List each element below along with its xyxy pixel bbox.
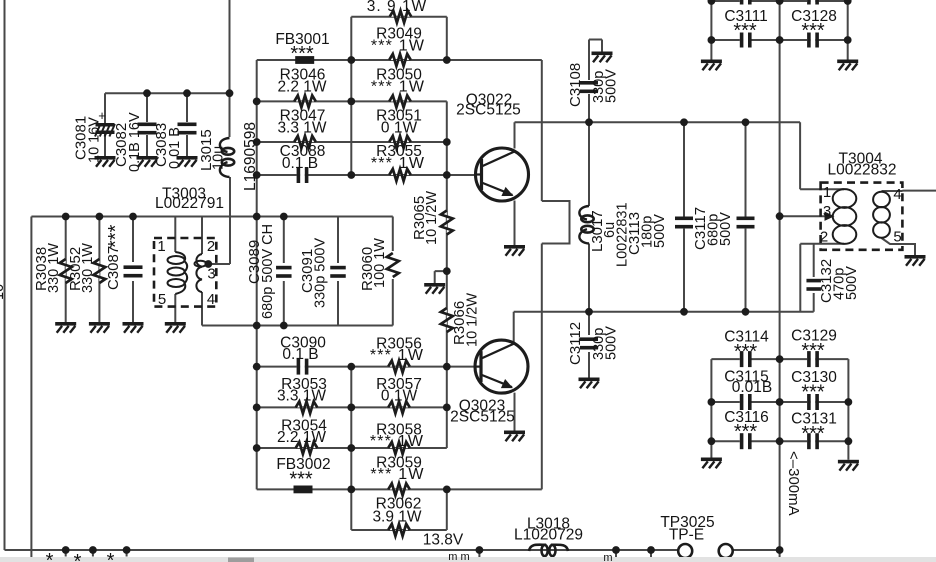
svg-text:2SC5125: 2SC5125 — [456, 102, 521, 119]
svg-text:m m: m m — [448, 551, 469, 562]
svg-text:3. 9 1W: 3. 9 1W — [367, 0, 427, 15]
svg-text:2SC5125: 2SC5125 — [450, 409, 515, 426]
svg-text:330 1W: 330 1W — [46, 243, 62, 293]
svg-text:***: *** — [734, 421, 758, 443]
svg-text:L0022832: L0022832 — [828, 162, 897, 179]
svg-text:13.8V: 13.8V — [423, 532, 464, 549]
svg-text:<–300mA: <–300mA — [785, 451, 802, 516]
svg-text:***: *** — [734, 341, 758, 363]
svg-text:***: *** — [801, 20, 825, 42]
svg-text:3.3 1W: 3.3 1W — [277, 388, 326, 405]
svg-text:C3112: C3112 — [567, 322, 584, 365]
svg-text:2.2 1W: 2.2 1W — [277, 79, 326, 96]
svg-text:***: *** — [801, 423, 825, 445]
svg-text:*** 1W: *** 1W — [371, 155, 425, 172]
svg-text:500V: 500V — [604, 69, 620, 103]
svg-text:500V: 500V — [718, 212, 734, 246]
svg-text:2: 2 — [820, 229, 828, 246]
svg-text:330p 500V: 330p 500V — [313, 238, 329, 308]
svg-text:L1020729: L1020729 — [514, 527, 583, 544]
svg-text:0 1W: 0 1W — [381, 120, 418, 137]
svg-text:4: 4 — [893, 186, 901, 203]
svg-text:0.01B: 0.01B — [732, 379, 773, 396]
svg-text:10 1/2W: 10 1/2W — [424, 191, 440, 245]
svg-text:0.1 B: 0.1 B — [282, 155, 318, 172]
svg-text:10: 10 — [0, 284, 7, 300]
svg-text:5: 5 — [893, 229, 901, 246]
svg-text:10 16V: 10 16V — [87, 117, 103, 163]
svg-text:500V: 500V — [844, 266, 860, 300]
svg-text:0 1W: 0 1W — [381, 388, 418, 405]
svg-text:*: * — [74, 551, 82, 562]
svg-text:*** 1W: *** 1W — [370, 466, 424, 483]
svg-text:***: *** — [801, 340, 825, 362]
svg-text:3.3 1W: 3.3 1W — [277, 120, 326, 137]
svg-text:*** 1W: *** 1W — [370, 347, 424, 364]
svg-text:0.1 B: 0.1 B — [282, 346, 318, 363]
svg-text:500V: 500V — [652, 214, 668, 248]
svg-text:1: 1 — [157, 238, 165, 255]
svg-text:10u: 10u — [211, 146, 227, 170]
svg-text:2.2 1W: 2.2 1W — [277, 429, 326, 446]
svg-text:330 1W: 330 1W — [80, 243, 96, 293]
svg-text:*** 1W: *** 1W — [371, 38, 425, 55]
svg-text:L1690598: L1690598 — [242, 122, 259, 191]
svg-text:2: 2 — [207, 238, 215, 255]
svg-text:m: m — [603, 552, 612, 562]
svg-text:680p 500V CH: 680p 500V CH — [260, 224, 276, 319]
svg-text:3: 3 — [207, 266, 215, 283]
svg-text:*: * — [107, 550, 115, 562]
svg-text:***: *** — [289, 469, 313, 491]
svg-text:*** 1W: *** 1W — [370, 433, 424, 450]
svg-text:TP-E: TP-E — [669, 527, 704, 544]
svg-text:1: 1 — [823, 184, 831, 201]
svg-text:0.01 B: 0.01 B — [167, 127, 183, 169]
svg-text:L0022791: L0022791 — [155, 195, 224, 212]
svg-text:C3108: C3108 — [567, 63, 584, 107]
svg-text:***: *** — [105, 224, 127, 248]
svg-text:0.1B 16V: 0.1B 16V — [127, 112, 143, 172]
svg-text:*: * — [46, 550, 54, 562]
svg-text:C3087: C3087 — [105, 246, 122, 290]
svg-text:3.9 1W: 3.9 1W — [372, 509, 421, 526]
svg-text:***: *** — [801, 382, 825, 404]
svg-text:5: 5 — [158, 291, 166, 308]
svg-text:*** 1W: *** 1W — [371, 79, 425, 96]
svg-text:***: *** — [290, 43, 314, 65]
svg-text:100 1W: 100 1W — [372, 238, 388, 288]
svg-text:10 1/2W: 10 1/2W — [465, 293, 481, 347]
svg-text:4: 4 — [207, 291, 215, 308]
svg-text:3: 3 — [823, 203, 831, 220]
svg-text:500V: 500V — [604, 326, 620, 360]
svg-text:***: *** — [733, 20, 757, 42]
